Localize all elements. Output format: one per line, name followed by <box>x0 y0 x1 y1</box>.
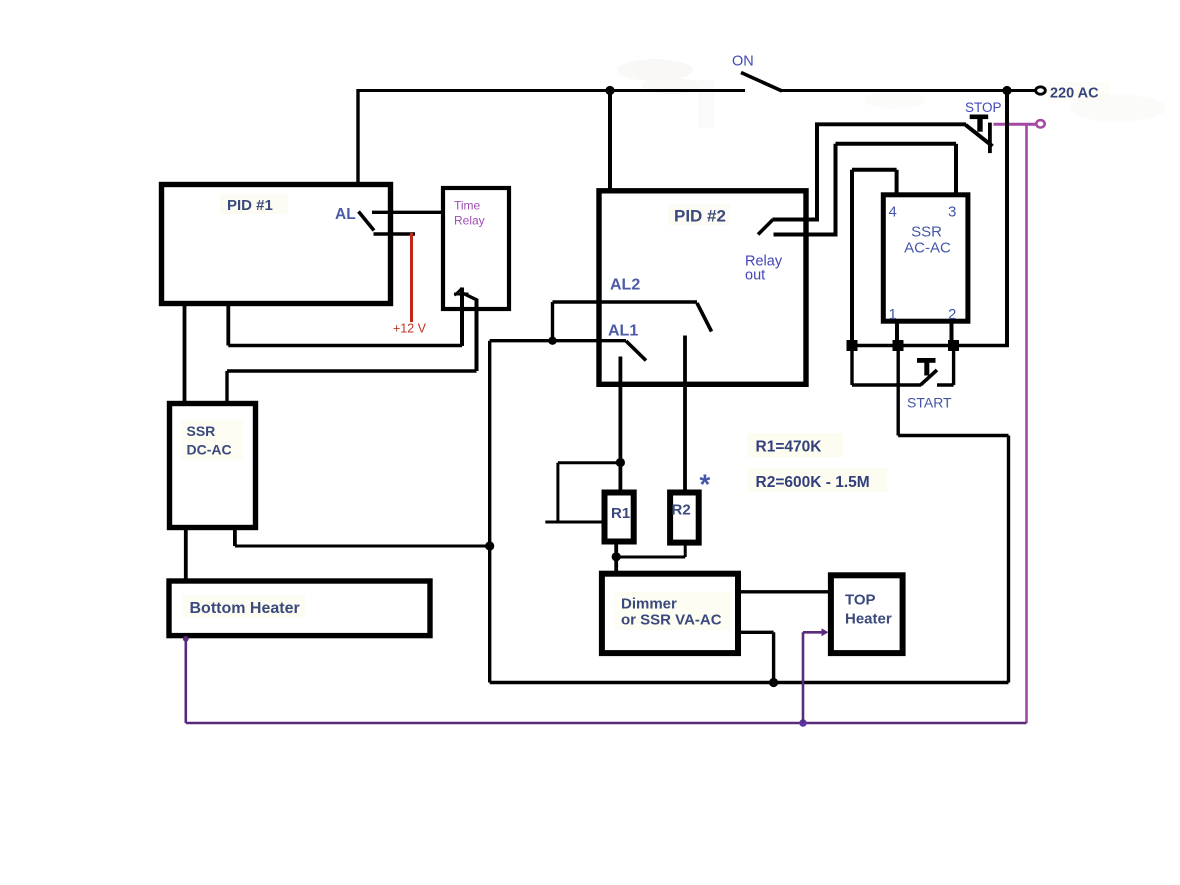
wire down to SSR DC-AC input <box>225 371 228 403</box>
svg-text:Heater: Heater <box>845 611 892 628</box>
switch AL1 blade <box>626 341 646 361</box>
svg-text:Relay: Relay <box>454 214 485 228</box>
wire bypass bottom stub <box>545 521 602 524</box>
bottom heater box <box>169 581 430 636</box>
resistor R2 <box>670 493 699 543</box>
svg-text:out: out <box>745 268 765 284</box>
SSR DC-AC box <box>170 404 256 528</box>
wire dimmer lower out <box>741 631 774 634</box>
wire purple bottom run <box>186 722 1027 725</box>
dimmer box <box>602 574 738 653</box>
wire dimmer out drop <box>772 632 775 682</box>
wire bypass vertical <box>556 463 559 522</box>
svg-text:TOP: TOP <box>845 592 876 609</box>
wire pin2 drop <box>950 322 954 346</box>
SSR AC-AC box <box>883 195 968 321</box>
resistor R1 <box>605 493 634 542</box>
wire top bus right segment <box>781 89 1035 92</box>
wire AL1 lower contact drop <box>619 357 623 491</box>
svg-text:1: 1 <box>889 306 897 323</box>
wire R2 bottom link <box>616 556 685 559</box>
wire purple stop to terminal <box>994 123 1037 126</box>
svg-text:START: START <box>907 395 952 411</box>
wire AL1 horizontal <box>490 339 626 342</box>
switch AL blade <box>359 212 375 231</box>
svg-text:or SSR VA-AC: or SSR VA-AC <box>621 612 722 629</box>
wire pin3 riser <box>834 144 838 236</box>
svg-text:R2=600K - 1.5M: R2=600K - 1.5M <box>756 474 870 491</box>
switch ON blade <box>741 73 782 92</box>
wire left drop to PID1 <box>356 89 359 185</box>
wire purple into top heater <box>803 631 824 634</box>
svg-text:ON: ON <box>732 54 754 70</box>
svg-text:R1=470K: R1=470K <box>756 439 823 456</box>
node square junction middle <box>893 340 904 351</box>
svg-text:R2: R2 <box>672 502 691 519</box>
wire PID1 to time relay bottom <box>228 344 462 347</box>
node purple junction <box>799 719 807 727</box>
wire pin3 horizontal <box>836 142 957 146</box>
svg-text:AL2: AL2 <box>610 277 640 294</box>
node junction center feed <box>485 541 494 550</box>
wire SSR DC-AC out to bottom heater <box>184 528 188 581</box>
wire pin1 drop <box>895 322 899 346</box>
node junction top bus to PID2 <box>605 86 614 95</box>
node junction AL2 tap <box>548 337 556 345</box>
svg-text:AL1: AL1 <box>608 323 638 340</box>
wire drop to PID2 <box>608 91 612 192</box>
svg-text:3: 3 <box>948 204 956 221</box>
wire purple top heater branch <box>802 632 805 723</box>
wire right drop to pins bus <box>1005 91 1009 348</box>
wire dimmer to top heater <box>741 590 828 593</box>
wire relay out upper <box>773 218 820 222</box>
wire PID1 output 1 <box>183 304 187 403</box>
wire pin4 horizontal <box>852 168 897 172</box>
svg-text:Dimmer: Dimmer <box>621 596 677 613</box>
wire relay out lower <box>774 233 838 237</box>
wire start right horizontal <box>937 383 954 386</box>
PID #1 box <box>162 185 391 304</box>
wire time relay out drop <box>475 300 479 372</box>
top heater box <box>831 575 903 653</box>
switch relay out blade <box>758 220 773 235</box>
wire +12V red <box>410 233 413 322</box>
svg-text:2: 2 <box>948 306 956 323</box>
svg-text:SSR: SSR <box>911 224 942 241</box>
node junction R1 bottom <box>612 552 621 561</box>
arrow purple into top heater <box>822 628 829 636</box>
wire AL2 riser <box>551 302 554 341</box>
wire PID1 output 2 <box>226 304 230 346</box>
terminal 220 AC <box>1036 87 1046 94</box>
wire time relay to SSR DC-AC <box>227 369 477 372</box>
wire to center feed <box>235 545 490 548</box>
svg-text:SSR: SSR <box>187 423 216 439</box>
wire SSR DC-AC out right <box>233 528 237 546</box>
svg-text:Time: Time <box>454 199 481 213</box>
node square junction right <box>948 340 959 351</box>
wire center feed vertical <box>488 341 491 683</box>
wire right vertical down <box>1007 436 1010 683</box>
svg-text:4: 4 <box>889 204 897 221</box>
svg-text:AL: AL <box>335 206 356 223</box>
time relay box <box>443 188 509 309</box>
wire to stop switch <box>815 122 966 126</box>
wire stop riser <box>815 124 819 219</box>
node junction top bus right <box>1002 86 1011 95</box>
node square junction left <box>847 340 858 351</box>
node junction bottom bus <box>769 678 778 687</box>
wire purple right riser <box>1025 124 1028 723</box>
wire AL lower contact <box>374 232 416 235</box>
wire start left drop <box>850 346 853 386</box>
svg-text:AC-AC: AC-AC <box>904 240 951 257</box>
switch time relay contact <box>454 288 478 347</box>
switch AL2 blade <box>697 303 712 332</box>
wire AL2 lower contact drop <box>683 336 687 491</box>
svg-text:+12 V: +12 V <box>393 322 427 336</box>
wire R2 bottom riser <box>684 544 687 557</box>
switch START blade <box>921 370 938 385</box>
wire pin3 drop <box>954 144 958 194</box>
wire AL to time relay <box>372 211 443 214</box>
wire start left horizontal <box>852 383 921 386</box>
PID #2 box <box>599 191 806 384</box>
svg-text:PID #2: PID #2 <box>674 207 726 226</box>
wire bottom bus <box>490 681 1009 684</box>
svg-text:STOP: STOP <box>965 100 1002 115</box>
svg-text:Bottom Heater: Bottom Heater <box>190 600 300 617</box>
wire bypass top <box>558 461 621 464</box>
wire top bus left segment <box>357 89 745 92</box>
wire pin4 top <box>895 170 899 194</box>
svg-text:DC-AC: DC-AC <box>187 442 232 458</box>
svg-text:R1: R1 <box>611 505 630 522</box>
wire pin1 down long <box>897 346 900 436</box>
svg-text:220 AC: 220 AC <box>1050 86 1099 102</box>
terminal purple <box>1036 120 1044 127</box>
wire to right vertical <box>898 434 1008 437</box>
wire purple left vertical <box>185 638 188 723</box>
wire pin4 left drop <box>850 170 854 346</box>
svg-text:PID #1: PID #1 <box>227 197 273 214</box>
wire AL2 horizontal <box>553 300 698 303</box>
node junction R1 top <box>616 458 625 467</box>
switch STOP button <box>966 115 993 154</box>
node purple bottom heater tap <box>183 636 189 642</box>
wire start right riser <box>952 346 955 386</box>
wire pins bottom bus <box>852 344 1009 347</box>
switch START plunger <box>917 358 936 376</box>
wire R1 bottom <box>614 544 618 571</box>
